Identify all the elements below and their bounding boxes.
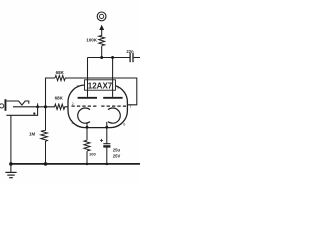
wire cathode left to R	[86, 123, 88, 140]
wire cap to output (right edge)	[134, 57, 140, 59]
wire left plate lead	[87, 58, 89, 80]
capacitor 22n (coupling)	[129, 53, 131, 62]
wire cathode right to C	[106, 122, 108, 144]
jack tip terminal circle	[0, 104, 4, 108]
arrow to terminal	[101, 30, 103, 36]
resistor 1M (grid leak)	[41, 107, 48, 164]
wire 100K to plate node	[101, 46, 103, 58]
jack body bar	[5, 99, 7, 111]
node cathode right	[105, 126, 108, 129]
jack contact dot	[33, 112, 35, 114]
wire plate bus	[88, 57, 130, 59]
ground symbol	[10, 164, 12, 172]
tube envelope V1 12AX7	[68, 85, 127, 128]
svg-text:2: 2	[72, 102, 74, 106]
cathode right (pin 8)	[108, 108, 120, 123]
wire jack sleeve to ground	[10, 115, 12, 164]
node plate/pin6	[111, 56, 114, 59]
plate stem left	[87, 80, 89, 97]
svg-text:12AX7: 12AX7	[88, 81, 113, 90]
svg-text:7: 7	[129, 105, 131, 109]
resistor 100K (plate load)	[99, 36, 105, 46]
svg-text:1: 1	[76, 85, 78, 89]
svg-text:3: 3	[71, 121, 73, 125]
labels	[29, 38, 134, 159]
node ground	[9, 162, 13, 166]
node plate/100K	[100, 56, 103, 59]
node input grid	[44, 105, 47, 108]
pin numbers	[71, 85, 131, 127]
svg-text:1M: 1M	[29, 132, 35, 137]
plus sign	[100, 139, 103, 142]
plate bar left (pin 1)	[78, 97, 97, 99]
node cathode left	[86, 126, 89, 129]
plate stem right	[112, 58, 114, 97]
svg-text:68K: 68K	[56, 70, 65, 75]
jack shunt contact / signal wire	[13, 106, 46, 108]
resistor 68K (grid stopper, pin 2)	[46, 104, 69, 109]
ground bus	[10, 163, 140, 165]
svg-text:6: 6	[117, 86, 119, 90]
capacitor 25u electrolytic	[103, 143, 110, 145]
svg-text:25u: 25u	[113, 148, 121, 153]
svg-text:100: 100	[89, 151, 96, 156]
cathode left (pin 3)	[78, 108, 90, 123]
svg-text:68K: 68K	[55, 96, 64, 101]
svg-text:25V: 25V	[113, 153, 121, 158]
jack tip contact with notch	[6, 101, 28, 105]
jack sleeve outline	[6, 103, 37, 115]
svg-text:22n: 22n	[126, 49, 134, 54]
resistor 100 (cathode)	[84, 140, 90, 151]
grid left (pin 2, dashed)	[72, 105, 97, 107]
wire 68K around tube to pin 7	[65, 78, 137, 105]
junction dots	[9, 56, 114, 166]
node jack	[36, 105, 39, 108]
svg-text:100K: 100K	[86, 38, 98, 43]
tube label box	[85, 80, 116, 90]
node cathode C ground	[106, 163, 109, 166]
node 1M ground	[44, 162, 48, 166]
svg-text:8: 8	[123, 123, 125, 127]
node cathode R ground	[86, 163, 89, 166]
upper grid wire from input node	[46, 78, 56, 107]
terminal B+ (double circle)	[97, 12, 106, 21]
grid right (pin 7, dashed)	[101, 105, 126, 107]
plate bar right (pin 6)	[103, 97, 122, 99]
resistor 68K (grid stopper, pin 7)	[55, 75, 65, 80]
